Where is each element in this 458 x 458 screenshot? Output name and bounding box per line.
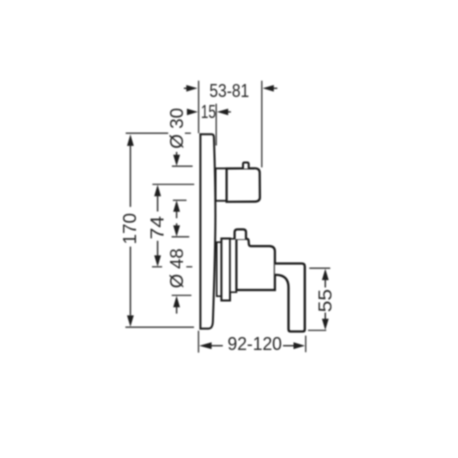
dimension 15 extension line right (215, 104, 217, 146)
dimension 170 upper arrow (127, 134, 134, 146)
valve body (236, 239, 275, 290)
dimension 74 upper arrow (154, 185, 161, 196)
dimension D48 bottom tick (172, 294, 192, 296)
svg-text:Ø 48: Ø 48 (167, 248, 187, 288)
dimension 53-81 extension line right (261, 81, 263, 168)
dimension 170 top tick (126, 132, 169, 134)
valve body top button (235, 229, 246, 239)
dimension 53-81 left arrow (184, 87, 187, 89)
dimension 92-120 right arrow (283, 345, 294, 347)
dimension 15 left arrow (187, 109, 198, 116)
dimension 170 lower arrow (129, 247, 131, 316)
dimension 92-120 right tick (305, 336, 307, 353)
svg-text:92-120: 92-120 (228, 334, 282, 354)
svg-text:53-81: 53-81 (209, 81, 249, 101)
svg-text:15: 15 (201, 102, 216, 122)
dimension 92-120 left arrow (199, 342, 211, 349)
dimension 53-81 right arrow (273, 87, 277, 89)
dimension 74 lower arrow (157, 241, 159, 256)
lower valve escutcheon ring (221, 239, 230, 301)
dimension D48 upper arrow (176, 223, 178, 226)
svg-text:55: 55 (316, 289, 336, 312)
dimension 92-120 left tick (198, 331, 200, 353)
dimension D30 lower arrow (173, 200, 180, 211)
thermostat knob (side view cylinder) (227, 168, 260, 202)
svg-text:Ø 30: Ø 30 (167, 108, 187, 149)
thermostat knob top button (243, 163, 249, 169)
lower valve flange piece (217, 242, 222, 296)
dimension D48 top tick (172, 236, 190, 238)
lower valve sleeve (230, 239, 236, 292)
dimension 55 lower arrow (324, 313, 326, 320)
dimension 55 bottom tick (308, 329, 326, 331)
svg-text:74: 74 (147, 216, 167, 240)
dimension 55 top tick (309, 267, 330, 269)
dimension 74 top tick (152, 183, 194, 185)
wall plate (escutcheon, side view) (200, 134, 215, 328)
svg-text:170: 170 (120, 213, 140, 245)
dimension D48 lower arrow (173, 296, 180, 307)
dimension 53-81 extension line left (198, 81, 200, 134)
lever handle (275, 264, 305, 332)
thermostat collar sleeve (216, 168, 227, 200)
dimension 15 right arrow (228, 111, 231, 113)
dimension D30 top tick (172, 165, 193, 167)
dimension 74 bottom tick (152, 266, 162, 268)
dimension D30 upper arrow (176, 152, 178, 157)
dimension 55 upper arrow (322, 269, 329, 280)
dimension 170 bottom tick (125, 326, 194, 328)
dimension D30 bottom tick (173, 199, 187, 201)
